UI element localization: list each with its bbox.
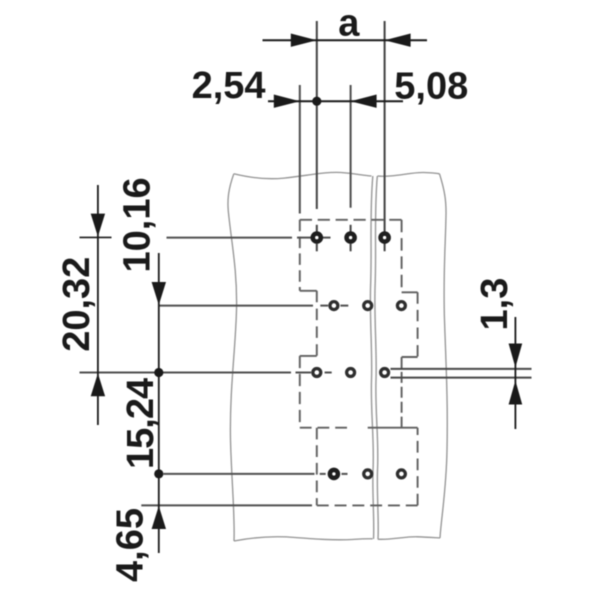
internal edge line left part (300, 427, 353, 429)
PCB panel wavy outline (228, 172, 447, 541)
hole row2 c1 (330, 302, 338, 310)
row 3 centerline left (80, 372, 332, 374)
hole row3 c1 (313, 369, 321, 377)
hole row2 c3 (397, 302, 405, 310)
extension line column x=350.6 (350, 85, 352, 208)
bottom edge (317, 504, 418, 506)
right edge row4 span (417, 428, 419, 506)
hole row1 c1 (313, 234, 321, 242)
panel break lines (double wavy) (370, 176, 378, 539)
right edge row1 span (401, 220, 403, 292)
dimension a arrow right (385, 34, 411, 47)
10,16 arrow down (152, 282, 166, 305)
left edge row4 span (316, 428, 318, 506)
hole row3 c3 (381, 369, 389, 377)
chain dot row3 (154, 368, 163, 377)
right step 2 (402, 356, 418, 358)
dimension 20,32 line (97, 185, 99, 425)
hole row4 c3 (397, 470, 405, 478)
top edge (300, 219, 402, 221)
left step 1 (300, 290, 317, 292)
svg-text:10,16: 10,16 (117, 177, 159, 272)
1,3 arrow upper (509, 344, 523, 368)
extension line column x=299.8 (299, 85, 301, 214)
left edge row2 span (316, 291, 318, 356)
svg-text:20,32: 20,32 (56, 257, 98, 352)
chain dot at x=316.8 (312, 97, 321, 106)
left step 2 (300, 355, 317, 357)
dimension a line (263, 39, 428, 41)
right edge row2 span (417, 292, 419, 357)
row 2 centerline left (159, 305, 348, 307)
left edge row3 span (299, 356, 301, 428)
svg-text:4,65: 4,65 (110, 508, 152, 582)
hole row2 c2 (364, 302, 372, 310)
left edge row1 span (299, 220, 301, 291)
20,32 arrow top (91, 214, 105, 237)
hole row4 c2 (364, 470, 372, 478)
internal edge line right part (368, 427, 418, 429)
dimension chain line right (158, 253, 160, 553)
svg-text:5,08: 5,08 (394, 65, 468, 107)
dimension a arrow left (291, 34, 317, 47)
hole row4 c1 (330, 470, 338, 478)
chain dot row4 (154, 469, 163, 478)
arrow at x=299.8 (274, 95, 300, 108)
right edge row3 span (401, 357, 403, 428)
svg-text:a: a (338, 2, 360, 44)
row 4 centerline left (164, 473, 348, 475)
row 1 hole tick marks vertical (317, 225, 351, 252)
extension line column x=316.8 (316, 21, 318, 209)
20,32 tick top (80, 236, 112, 238)
dimension 2,54 / 5,08 line (268, 100, 403, 102)
svg-text:1,3: 1,3 (474, 278, 516, 331)
dimension 1,3 line (514, 317, 516, 429)
right step 1 (402, 291, 418, 293)
hole row1 c3 (381, 234, 389, 242)
extension line column x=384.6 (384, 21, 386, 251)
hole diameter tangent lines (391, 369, 532, 378)
svg-text:15,24: 15,24 (120, 378, 162, 469)
20,32 arrow bottom (91, 373, 105, 396)
1,3 arrow lower (509, 381, 523, 405)
hole row3 c2 (347, 369, 355, 377)
row 1 centerline left (167, 237, 331, 239)
4,65 arrow up (152, 506, 166, 529)
arrow at x=350.6 (351, 95, 377, 108)
hole row1 c2 (347, 234, 355, 242)
component outline (dashed) (300, 220, 418, 506)
bottom edge extension line (141, 504, 312, 506)
svg-text:2,54: 2,54 (192, 65, 266, 107)
